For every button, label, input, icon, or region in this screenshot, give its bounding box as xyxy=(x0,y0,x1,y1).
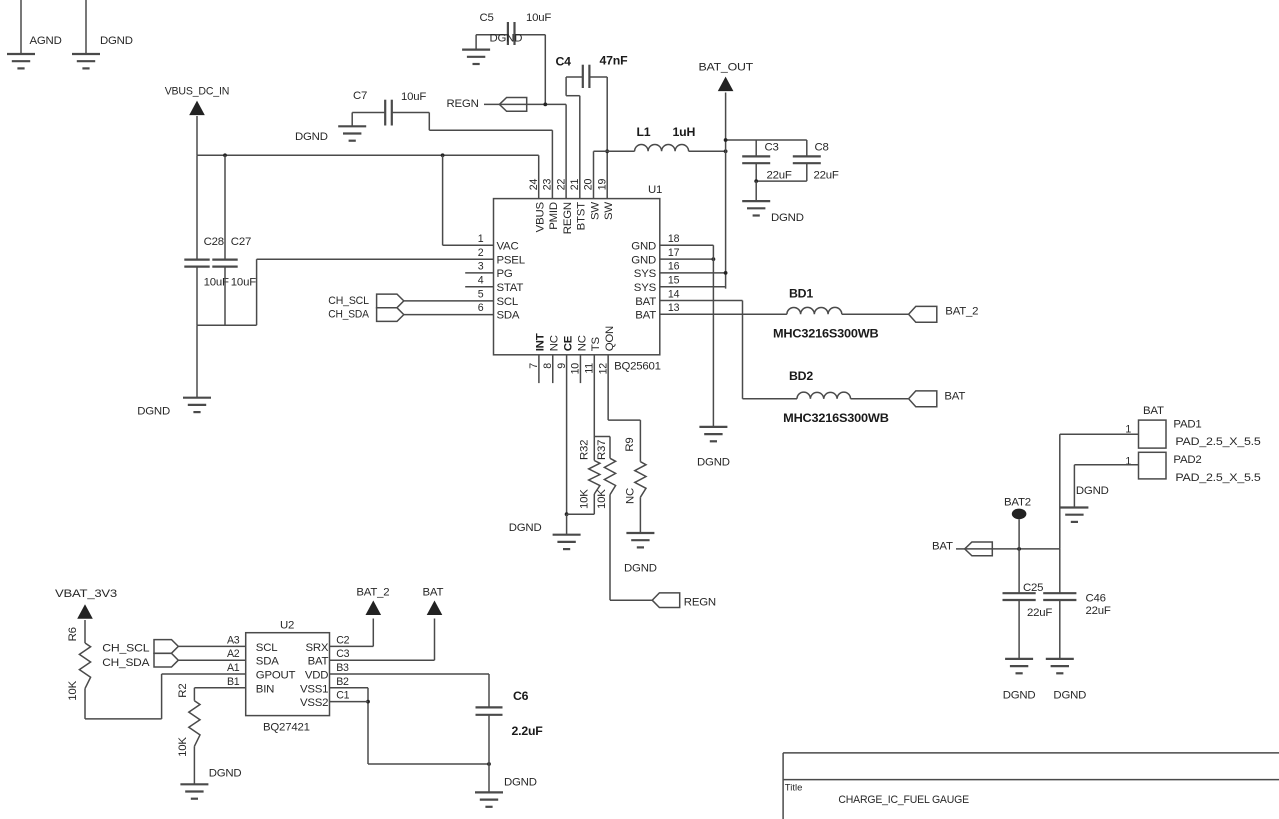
svg-text:22uF: 22uF xyxy=(767,170,792,182)
svg-text:BAT_2: BAT_2 xyxy=(356,586,389,598)
svg-text:SYS: SYS xyxy=(634,282,657,294)
svg-text:NC: NC xyxy=(576,335,588,351)
inductor L1 xyxy=(635,125,696,151)
ground DGND (U1) xyxy=(699,427,727,441)
U2 pin A2 SDA xyxy=(227,648,279,668)
wire pads riser xyxy=(1059,434,1061,549)
svg-text:PAD1: PAD1 xyxy=(1173,419,1201,431)
svg-text:SW: SW xyxy=(603,202,615,220)
capacitor C6 xyxy=(476,689,544,738)
net label DGND (C5) xyxy=(490,33,523,45)
svg-text:SYS: SYS xyxy=(634,268,657,280)
net label DGND (R9) xyxy=(624,563,657,575)
net label DGND (PAD2) xyxy=(1076,485,1109,497)
svg-text:4: 4 xyxy=(478,275,484,287)
ground DGND (PAD2) xyxy=(1060,508,1088,522)
svg-text:10K: 10K xyxy=(177,737,189,757)
title block text xyxy=(785,783,970,807)
svg-text:C8: C8 xyxy=(815,142,829,154)
U1 pin 20 SW xyxy=(583,179,602,221)
pad PAD2 xyxy=(1125,452,1260,484)
wire R32 to ground xyxy=(567,494,595,514)
svg-text:QON: QON xyxy=(604,326,616,351)
U1 pin 15 SYS xyxy=(634,275,680,295)
U1 pin 8 NC xyxy=(542,335,561,368)
wire pin 3 stub xyxy=(465,272,493,274)
svg-text:CH_SDA: CH_SDA xyxy=(328,309,369,321)
svg-text:R9: R9 xyxy=(624,437,636,451)
svg-text:CH_SDA: CH_SDA xyxy=(102,657,150,669)
U1 pin 2 PSEL xyxy=(478,247,525,267)
svg-text:NC: NC xyxy=(625,488,637,504)
ground DGND (under C28) xyxy=(183,325,211,412)
svg-text:SW: SW xyxy=(589,202,601,220)
resistor R37 xyxy=(596,437,616,510)
op-amp U1 body xyxy=(494,184,663,373)
svg-text:VAC: VAC xyxy=(497,241,519,253)
svg-text:REGN: REGN xyxy=(684,596,716,608)
ground DGND (CE) xyxy=(553,535,581,549)
ground DGND (C25) xyxy=(1005,659,1033,673)
power flag VBAT_3V3 xyxy=(55,588,117,643)
svg-text:C46: C46 xyxy=(1086,593,1106,605)
ground DGND (R2) xyxy=(180,784,208,798)
svg-text:SDA: SDA xyxy=(497,310,520,322)
svg-text:MHC3216S300WB: MHC3216S300WB xyxy=(783,411,889,425)
power flag VBUS_DC_IN xyxy=(165,86,230,156)
net flag BAT (BD2) xyxy=(909,391,966,407)
net flag BAT (pads) xyxy=(932,541,992,556)
wire BD2 to BAT flag xyxy=(851,398,909,400)
svg-text:R37: R37 xyxy=(596,440,608,460)
svg-text:STAT: STAT xyxy=(497,282,524,294)
U1 pin 10 NC xyxy=(570,335,589,374)
svg-text:10uF: 10uF xyxy=(526,12,551,24)
wire pin 18 GND xyxy=(660,244,714,246)
capacitor C5 xyxy=(476,12,551,45)
svg-text:Title: Title xyxy=(785,783,803,794)
svg-text:1uH: 1uH xyxy=(673,125,696,139)
U1 pin 23 PMID xyxy=(542,179,561,230)
svg-text:DGND: DGND xyxy=(697,457,730,469)
svg-text:5: 5 xyxy=(478,288,484,300)
U1 pin 24 VBUS xyxy=(528,179,547,233)
wire pin 10 stub xyxy=(579,355,581,383)
wire pin 12 QON to R9 xyxy=(608,355,640,462)
svg-text:DGND: DGND xyxy=(295,131,328,143)
svg-text:24: 24 xyxy=(528,179,540,191)
wire VBUS to pin 24 xyxy=(538,155,540,198)
svg-text:B3: B3 xyxy=(336,662,349,674)
pad PAD1 xyxy=(1125,405,1260,448)
capacitor C28 xyxy=(184,155,229,325)
wire C3/C8 bottoms xyxy=(754,179,807,183)
svg-text:13: 13 xyxy=(668,302,680,314)
wire CH_SDA to pin 6 xyxy=(404,314,494,316)
wire pin 11 TS xyxy=(594,355,610,461)
U1 pin 4 STAT xyxy=(478,275,524,295)
capacitor C3 xyxy=(742,140,792,182)
net label DGND (C46) xyxy=(1053,690,1086,702)
U1 pin 11 TS xyxy=(584,337,603,374)
net label DGND (C25) xyxy=(1003,690,1036,702)
wire REGN to pin 22 xyxy=(484,103,566,199)
U1 pin 12 QON xyxy=(597,326,616,374)
power flag BAT_2 (U2) xyxy=(356,586,389,615)
svg-text:18: 18 xyxy=(668,233,680,245)
title block frame xyxy=(783,753,1279,819)
svg-text:22uF: 22uF xyxy=(1086,605,1111,617)
U1 pin 6 SDA xyxy=(478,302,520,322)
svg-text:3: 3 xyxy=(478,261,484,273)
net label DGND (top-left) xyxy=(100,35,133,47)
svg-text:22: 22 xyxy=(555,179,567,191)
svg-text:INT: INT xyxy=(535,333,547,351)
U1 pin 19 SW xyxy=(596,179,615,221)
U2 pin C2 SRX xyxy=(305,634,349,654)
net label AGND xyxy=(30,35,62,47)
U2 pin A1 GPOUT xyxy=(227,662,296,682)
net label DGND (C7) xyxy=(295,131,328,143)
svg-text:GPOUT: GPOUT xyxy=(256,670,296,682)
resistor R32 xyxy=(579,440,600,509)
resistor R9 xyxy=(624,437,646,504)
wire C6 to ground xyxy=(488,715,490,793)
net label DGND (CE) xyxy=(509,522,542,534)
svg-text:R2: R2 xyxy=(177,684,189,698)
svg-text:DGND: DGND xyxy=(1053,690,1086,702)
wire L1 to BAT_OUT xyxy=(689,149,728,153)
wire pin 4 stub xyxy=(465,286,493,288)
U1 pin 18 GND xyxy=(631,233,679,253)
svg-text:C6: C6 xyxy=(513,689,529,703)
svg-text:DGND: DGND xyxy=(137,406,170,418)
U2 pin C1 VSS2 xyxy=(300,690,350,710)
wire to pin 2 PSEL xyxy=(257,259,494,325)
capacitor C4 xyxy=(556,54,629,89)
svg-text:BAT: BAT xyxy=(932,541,953,553)
svg-text:SCL: SCL xyxy=(497,296,519,308)
svg-text:SDA: SDA xyxy=(256,656,279,668)
wire VBUS bus xyxy=(197,153,539,157)
net label DGND (C6) xyxy=(504,777,537,789)
wire R37 to REGN xyxy=(610,495,652,601)
svg-text:A3: A3 xyxy=(227,634,240,646)
svg-text:21: 21 xyxy=(569,179,581,191)
wire C5 to REGN net xyxy=(544,35,546,105)
svg-text:6: 6 xyxy=(478,302,484,314)
svg-text:BAT: BAT xyxy=(1143,405,1164,417)
wire CH_SCL to pin 5 xyxy=(404,300,494,302)
power flag BAT (U2) xyxy=(423,586,444,615)
svg-text:SRX: SRX xyxy=(305,642,328,654)
wire CH_SDA to SDA xyxy=(178,659,245,661)
wire PAD1 xyxy=(1060,433,1139,435)
svg-text:REGN: REGN xyxy=(562,202,574,234)
svg-text:CE: CE xyxy=(562,335,574,351)
U1 pin 16 SYS xyxy=(634,261,680,281)
wire VDD to C6 xyxy=(330,674,490,707)
wire VBUS to pin 1 VAC xyxy=(443,155,494,245)
capacitor C7 xyxy=(352,90,429,126)
net label DGND (C3) xyxy=(771,212,804,224)
U1 pin 14 BAT xyxy=(635,288,679,308)
capacitor C27 xyxy=(212,155,256,325)
svg-text:BTST: BTST xyxy=(576,202,588,231)
svg-text:L1: L1 xyxy=(637,125,651,139)
ground DGND (top-left) xyxy=(72,54,100,68)
svg-text:BAT: BAT xyxy=(308,656,329,668)
wire BAT_OUT cap bus xyxy=(724,138,807,142)
power flag BAT_OUT xyxy=(699,62,754,289)
svg-text:22uF: 22uF xyxy=(814,170,839,182)
wire C46 to ground xyxy=(1059,600,1061,659)
wire pin 13 BAT to BD1 xyxy=(660,313,787,315)
svg-text:BAT: BAT xyxy=(423,586,444,598)
ferrite bead BD2 xyxy=(783,369,889,425)
U1 pin 22 REGN xyxy=(555,179,574,235)
net flag BAT_2 (BD1) xyxy=(909,306,979,323)
wire BD1 to BAT_2 flag xyxy=(842,313,909,315)
U2 pin B3 VDD xyxy=(305,662,349,682)
svg-text:CHARGE_IC_FUEL GAUGE: CHARGE_IC_FUEL GAUGE xyxy=(838,794,969,806)
wire C4 to SW column xyxy=(605,77,609,199)
svg-text:10uF: 10uF xyxy=(231,277,256,289)
ground DGND (C6) xyxy=(475,792,503,806)
net label DGND (U1) xyxy=(697,457,730,469)
wire VSS to C6 bottom xyxy=(368,762,491,766)
svg-text:DGND: DGND xyxy=(1003,690,1036,702)
U1 pin 1 VAC xyxy=(478,233,519,253)
svg-text:23: 23 xyxy=(542,179,554,191)
U1 pin 17 GND xyxy=(631,247,679,267)
wire SRX to BAT_2 xyxy=(330,619,374,647)
ground DGND (C3) xyxy=(742,181,770,215)
svg-text:GND: GND xyxy=(631,254,656,266)
U2 pin B2 VSS1 xyxy=(300,676,349,696)
U2 pin B1 BIN xyxy=(227,676,274,696)
wire PAD2 to ground xyxy=(1074,465,1138,508)
svg-text:10uF: 10uF xyxy=(401,91,426,103)
wire BAT pin to BAT xyxy=(330,619,435,661)
svg-text:17: 17 xyxy=(668,247,680,259)
svg-text:U2: U2 xyxy=(280,620,294,632)
svg-text:VSS1: VSS1 xyxy=(300,683,328,695)
svg-text:PSEL: PSEL xyxy=(497,254,525,266)
svg-text:C3: C3 xyxy=(336,648,349,660)
svg-text:MHC3216S300WB: MHC3216S300WB xyxy=(773,327,879,341)
svg-text:10K: 10K xyxy=(596,489,608,509)
svg-text:BD2: BD2 xyxy=(789,369,813,383)
svg-text:BD1: BD1 xyxy=(789,286,813,300)
svg-text:BAT2: BAT2 xyxy=(1004,497,1031,509)
svg-text:C28: C28 xyxy=(204,236,224,248)
resistor R6 xyxy=(67,627,91,700)
op-amp U2 body xyxy=(246,620,330,734)
svg-text:1: 1 xyxy=(1125,456,1131,468)
svg-text:TS: TS xyxy=(590,337,602,352)
ground AGND xyxy=(7,54,35,68)
svg-text:BAT: BAT xyxy=(635,310,656,322)
ground DGND (C5) xyxy=(462,35,490,64)
net flag CH_SDA (U1) xyxy=(328,308,404,322)
wire C28/C27 bottoms xyxy=(197,324,257,326)
svg-text:16: 16 xyxy=(668,261,680,273)
U1 pin 7 INT xyxy=(528,333,547,368)
svg-text:CH_SCL: CH_SCL xyxy=(328,295,369,307)
svg-text:BQ27421: BQ27421 xyxy=(263,722,310,734)
U1 pin 13 BAT xyxy=(635,302,679,322)
wire pin 14 BAT to BD2 xyxy=(660,301,797,399)
svg-text:19: 19 xyxy=(596,179,608,191)
wire BAT bus xyxy=(965,547,1060,551)
svg-text:PMID: PMID xyxy=(548,202,560,230)
svg-text:2.2uF: 2.2uF xyxy=(512,724,544,738)
wire C7 to pin 23 PMID xyxy=(429,113,552,199)
svg-text:14: 14 xyxy=(668,288,680,300)
svg-text:C4: C4 xyxy=(556,55,572,69)
svg-text:NC: NC xyxy=(549,335,561,351)
capacitor C8 xyxy=(793,140,839,182)
ground DGND (C7) xyxy=(338,113,366,141)
svg-text:B2: B2 xyxy=(336,676,349,688)
svg-text:2: 2 xyxy=(478,247,484,259)
net flag CH_SCL (U1) xyxy=(328,294,404,308)
U2 pin C3 BAT xyxy=(308,648,350,668)
wire R2 to BIN xyxy=(194,687,245,689)
wire pin 7 stub xyxy=(538,355,540,383)
wire SYS pins xyxy=(660,271,728,287)
svg-text:BQ25601: BQ25601 xyxy=(614,361,661,373)
svg-text:C3: C3 xyxy=(765,142,779,154)
svg-text:DGND: DGND xyxy=(509,522,542,534)
svg-text:DGND: DGND xyxy=(771,212,804,224)
svg-text:DGND: DGND xyxy=(504,777,537,789)
wire CH_SCL to SCL xyxy=(178,645,245,647)
svg-text:DGND: DGND xyxy=(100,35,133,47)
svg-text:VDD: VDD xyxy=(305,670,328,682)
svg-text:15: 15 xyxy=(668,275,680,287)
svg-text:C7: C7 xyxy=(353,90,367,102)
svg-text:PAD_2.5_X_5.5: PAD_2.5_X_5.5 xyxy=(1175,436,1260,448)
wire R9 to ground xyxy=(639,497,641,533)
svg-text:22uF: 22uF xyxy=(1027,607,1052,619)
ground DGND (C46) xyxy=(1046,659,1074,673)
svg-text:A2: A2 xyxy=(227,648,240,660)
wire VSS1/VSS2 xyxy=(330,688,370,764)
svg-text:20: 20 xyxy=(583,179,595,191)
net label DGND (under C28) xyxy=(137,406,170,418)
wire AGND rail xyxy=(20,0,22,54)
net label DGND (R2) xyxy=(209,768,242,780)
svg-text:BAT_OUT: BAT_OUT xyxy=(699,62,754,74)
ground DGND (R9) xyxy=(626,533,654,547)
svg-text:DGND: DGND xyxy=(490,33,523,45)
capacitor C46 xyxy=(1043,549,1111,617)
svg-text:C5: C5 xyxy=(480,12,494,24)
svg-text:REGN: REGN xyxy=(447,98,479,110)
svg-text:B1: B1 xyxy=(227,676,240,688)
svg-text:R6: R6 xyxy=(67,627,79,641)
svg-text:VBUS_DC_IN: VBUS_DC_IN xyxy=(165,86,230,98)
ferrite bead BD1 xyxy=(773,286,879,340)
svg-text:BAT_2: BAT_2 xyxy=(945,306,978,318)
svg-text:10K: 10K xyxy=(67,680,79,700)
svg-text:DGND: DGND xyxy=(209,768,242,780)
svg-text:PAD_2.5_X_5.5: PAD_2.5_X_5.5 xyxy=(1175,472,1260,484)
net flag REGN (top) xyxy=(447,98,527,112)
svg-text:10K: 10K xyxy=(579,489,591,509)
svg-text:DGND: DGND xyxy=(1076,485,1109,497)
svg-text:VSS2: VSS2 xyxy=(300,697,328,709)
svg-text:C1: C1 xyxy=(336,690,349,702)
wire pin 20 SW xyxy=(594,151,635,198)
wire R2 to ground xyxy=(193,746,195,784)
svg-text:1: 1 xyxy=(478,233,484,245)
svg-text:DGND: DGND xyxy=(624,563,657,575)
svg-text:R32: R32 xyxy=(579,440,591,460)
svg-text:PAD2: PAD2 xyxy=(1173,454,1201,466)
wire R6 to GPOUT xyxy=(85,674,246,719)
svg-text:C27: C27 xyxy=(231,236,251,248)
svg-text:A1: A1 xyxy=(227,662,240,674)
svg-text:BAT: BAT xyxy=(635,296,656,308)
wire pin 17 GND xyxy=(660,257,716,261)
U1 pin 21 BTST xyxy=(569,179,588,231)
U2 pin A3 SCL xyxy=(227,634,277,654)
svg-text:C2: C2 xyxy=(336,634,349,646)
wire pin 8 stub xyxy=(552,355,554,383)
wire C25 to ground xyxy=(1018,600,1020,659)
svg-text:47nF: 47nF xyxy=(600,54,629,68)
wire C4 to pin 21 BTST xyxy=(566,77,580,199)
wire DGND rail xyxy=(85,0,87,54)
svg-text:CH_SCL: CH_SCL xyxy=(102,643,149,655)
net flag CH_SDA (U2) xyxy=(102,653,178,669)
U1 pin 3 PG xyxy=(478,261,513,281)
U1 pin 5 SCL xyxy=(478,288,518,308)
resistor R2 xyxy=(177,684,200,757)
capacitor C25 xyxy=(1003,549,1053,619)
svg-text:U1: U1 xyxy=(648,184,662,196)
net flag CH_SCL (U2) xyxy=(102,640,178,655)
svg-text:VBAT_3V3: VBAT_3V3 xyxy=(55,588,117,600)
svg-text:BAT: BAT xyxy=(944,391,965,403)
node BAT2 xyxy=(1004,497,1031,549)
svg-text:GND: GND xyxy=(631,241,656,253)
svg-text:AGND: AGND xyxy=(30,35,62,47)
svg-text:VBUS: VBUS xyxy=(535,201,547,232)
svg-text:SCL: SCL xyxy=(256,642,278,654)
wire pin 9 CE to ground xyxy=(565,355,569,535)
svg-text:BIN: BIN xyxy=(256,683,274,695)
net flag REGN (bottom) xyxy=(652,593,716,608)
U1 pin 9 CE xyxy=(556,335,575,368)
wire GND drop xyxy=(712,245,714,427)
svg-text:C25: C25 xyxy=(1023,582,1043,594)
svg-text:PG: PG xyxy=(497,268,513,280)
